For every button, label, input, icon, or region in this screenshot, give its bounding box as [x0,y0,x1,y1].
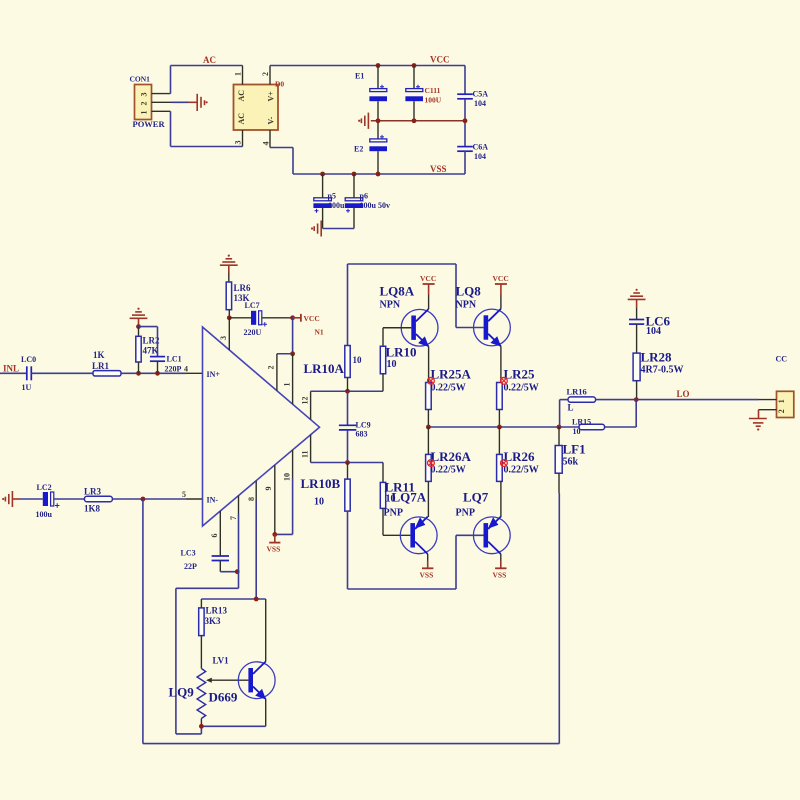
svg-text:6: 6 [210,534,219,538]
wire pin 12 net [311,390,383,392]
node pins 1-2 [290,351,295,356]
pin 12 stub [301,391,311,419]
wire LC2 to LR3 [54,498,85,500]
svg-text:1: 1 [234,72,243,76]
pin 9 stub [264,465,275,534]
wire D669 collector [265,599,267,662]
wire p6 to ground [323,228,354,230]
svg-text:4R7-0.5W: 4R7-0.5W [641,365,684,376]
wire pin 10 down [292,478,294,534]
svg-text:IN+: IN+ [207,370,221,379]
node IN+ LC1 [155,371,160,376]
svg-text:LQ8A: LQ8A [380,284,415,299]
resistor LR3 1K8 [84,487,112,514]
svg-text:5: 5 [182,490,186,499]
node output LR25A [426,425,431,430]
svg-text:LO: LO [677,389,690,399]
svg-text:100u: 100u [328,201,345,210]
svg-text:LR16: LR16 [567,387,587,397]
svg-text:LR25A: LR25A [431,367,472,382]
node pin11 LC9 column [345,460,350,465]
node LC7 VCC [290,315,295,320]
node pins 9-10 VSS [272,532,277,537]
transistor LQ7 [456,490,511,555]
node LC3 pin7 [235,569,240,574]
svg-text:1K8: 1K8 [84,504,101,514]
wire gnd to LC2 [20,498,43,500]
svg-text:1: 1 [283,383,292,387]
resistor LR26A 0.22/5W [426,427,472,517]
wire bias bottom rail [201,725,265,727]
connector CON1 [130,75,173,130]
svg-text:N1: N1 [315,328,324,337]
svg-text:22P: 22P [184,562,197,571]
svg-text:LC3: LC3 [181,549,196,558]
svg-text:0.22/5W: 0.22/5W [504,465,539,476]
node LR2 top [136,324,141,329]
svg-text:VCC: VCC [420,274,436,283]
pin 8 stub [247,481,256,501]
svg-text:LR26: LR26 [504,449,536,464]
wire pin 7 net down-left [176,514,239,734]
svg-text:CC: CC [776,355,788,364]
svg-text:D669: D669 [209,690,238,705]
capacitor LC2 100u [36,483,60,519]
ground above LC6 [628,289,646,308]
resistor LR11 10 [380,463,415,536]
wire VCC rail [270,55,465,66]
svg-text:4: 4 [184,365,188,374]
svg-text:3K3: 3K3 [205,616,222,626]
svg-text:VSS: VSS [420,571,434,580]
svg-text:E2: E2 [354,145,363,154]
svg-text:LC2: LC2 [37,483,52,492]
svg-text:LF1: LF1 [563,442,586,457]
capacitor p5 [313,174,345,229]
wire LQ8A emitter [428,346,430,382]
node IN+ LR2 [136,371,141,376]
svg-text:VCC: VCC [304,314,320,323]
svg-text:VSS: VSS [267,545,281,554]
potentiometer LV1 [197,656,248,727]
resistor LR28 4R7-0.5W [633,350,683,400]
resistor LR6 13K [226,273,251,318]
svg-text:LR25: LR25 [504,367,536,382]
wire LR3 to opamp IN- [112,490,202,499]
marker LR25 [501,377,508,384]
svg-text:D0: D0 [275,80,284,89]
transistor LQ7A [384,490,438,555]
pin 1 stub [283,354,293,404]
transistor LQ8 [456,284,511,347]
node feedback at IN- [141,497,146,502]
resistor LR25 0.22/5W [497,367,539,428]
capacitor C6A 104 [457,121,488,174]
svg-text:AC: AC [237,113,246,125]
pin 2 stub [267,354,293,391]
capacitor LC0 1U [21,355,36,392]
node VSS-p6 [352,172,357,177]
svg-text:10: 10 [314,497,324,508]
capacitor E2 [354,121,387,174]
node mid-C111 [412,118,417,123]
capacitor E1 [355,66,387,121]
svg-text:L: L [568,403,574,413]
wire output node [428,400,636,427]
svg-text:2: 2 [261,72,270,76]
node mid-C5A [463,118,468,123]
svg-text:C6A: C6A [473,143,489,152]
resistor LR25A 0.22/5W [426,367,472,428]
capacitor p6 [345,174,390,229]
svg-text:LC7: LC7 [245,301,260,310]
pin 11 stub [301,435,311,463]
svg-text:11: 11 [301,450,310,458]
svg-text:C5A: C5A [473,90,489,99]
svg-text:LC9: LC9 [356,421,371,430]
op-amp U1 [203,327,320,526]
resistor LR10 10 [380,328,416,392]
svg-text:PNP: PNP [456,508,475,519]
svg-text:9: 9 [264,487,273,491]
ground below p5 [311,221,321,237]
svg-text:220P: 220P [165,365,182,374]
svg-text:POWER: POWER [133,119,166,129]
wire LQ7 base net bottom [348,511,484,589]
power port VCC LQ8A [420,274,436,309]
svg-text:100u 50v: 100u 50v [360,201,390,210]
wire AC net [171,55,243,94]
svg-text:VCC: VCC [430,55,450,65]
svg-text:3: 3 [140,93,149,97]
svg-text:AC: AC [203,55,216,65]
svg-text:E1: E1 [355,72,364,81]
resistor LR26 0.22/5W [497,427,539,517]
pin 10 stub [283,450,293,481]
wire LR2 top to LC1 [139,327,158,357]
svg-text:1K: 1K [93,350,105,360]
resistor LR1 1K [92,350,121,376]
power port VCC LQ8 [493,274,509,309]
resistor LR10A 10 [304,346,363,392]
transistor LQ9 D669 [169,662,276,705]
svg-text:LC0: LC0 [21,355,36,364]
svg-text:LC1: LC1 [167,355,182,364]
node VCC-E1 [376,63,381,68]
svg-text:10: 10 [353,355,363,365]
ground above LR2 [130,308,148,327]
svg-text:V-: V- [267,116,276,124]
svg-text:7: 7 [229,516,238,520]
svg-text:p6: p6 [360,192,368,201]
power port VSS opamp [267,534,281,553]
svg-text:IN-: IN- [207,496,219,505]
ground at lower input [2,491,20,507]
svg-text:LR10A: LR10A [304,361,345,376]
node bias bottom [199,724,204,729]
capacitor LC1 220P [150,355,182,374]
svg-text:LR13: LR13 [206,606,228,616]
wire VSS rail [293,164,465,174]
node VSS-E2 [376,172,381,177]
wire INL input [0,372,27,374]
svg-text:2: 2 [140,102,149,106]
ground at CC pin 2 [749,410,767,431]
svg-text:2: 2 [267,366,276,370]
node output LF1 [557,425,562,430]
svg-text:LV1: LV1 [213,656,230,666]
wire CON1 pin1 to bridge [171,111,243,146]
node output LR25 [497,425,502,430]
resistor LF1 56k [555,427,585,493]
node VSS-p5 [320,172,325,177]
wire pin 8 net down [255,499,257,599]
wire LQ8 base net top [348,264,484,346]
capacitor LC6 104 [629,308,671,353]
svg-text:LQ7A: LQ7A [392,490,427,505]
svg-text:0.22/5W: 0.22/5W [431,383,466,394]
marker LR26A [428,460,435,467]
svg-text:47K: 47K [143,346,159,356]
transistor LQ8A [380,284,439,348]
svg-text:104: 104 [646,326,661,337]
svg-text:1: 1 [777,399,786,403]
power port VCC opamp [293,314,320,323]
svg-text:LR28: LR28 [641,350,673,365]
wire pin 11 net [311,462,383,464]
resistor LR16 L [560,387,637,428]
svg-text:V+: V+ [267,91,276,102]
wire LC0 to LR1 [31,372,93,374]
svg-text:NPN: NPN [380,300,401,311]
svg-text:LQ8: LQ8 [456,284,482,299]
wire VCC to pins 1,2 [292,318,294,354]
wire bias top rail [201,598,265,600]
svg-text:100U: 100U [425,96,442,105]
svg-text:VSS: VSS [430,164,447,174]
svg-text:10: 10 [573,427,581,436]
wire feedback loop [143,493,559,744]
power port VSS LQ7 [493,554,507,580]
svg-text:3: 3 [219,336,228,340]
svg-text:C111: C111 [425,86,441,95]
svg-text:0.22/5W: 0.22/5W [504,383,539,394]
wire mid rail [371,120,465,122]
wire bridge V- to VSS rail [270,148,293,175]
pin 3 stub [219,318,229,350]
svg-text:104: 104 [474,152,486,161]
node pin8 bias [254,597,259,602]
svg-text:220U: 220U [244,328,262,337]
pin 6 stub [210,511,220,556]
power port VSS LQ7A [420,554,434,580]
node VCC-C111 [412,63,417,68]
ground at mid rail [358,113,368,129]
net LO wire [636,389,758,400]
svg-text:VCC: VCC [493,274,509,283]
svg-text:PNP: PNP [384,508,403,519]
resistor LR13 3K3 [199,599,228,669]
capacitor LC7 220U [229,301,292,337]
svg-text:LQ7: LQ7 [463,490,489,505]
bridge rectifier D0 [234,66,285,148]
svg-text:LR3: LR3 [84,487,102,497]
svg-text:10: 10 [283,473,292,481]
wire LR1 to opamp IN+ [121,365,203,374]
wire LC3 to pin7 net [220,571,237,573]
svg-text:3: 3 [234,141,243,145]
ground above LR6 [220,255,238,274]
marker LR25A [428,377,435,384]
node pin12 LC9 column [345,389,350,394]
wire D669 emitter [265,699,267,726]
svg-text:100u: 100u [36,510,53,519]
wire pin 10 to VSS node [275,533,293,535]
marker LR26 [501,460,508,467]
ground at CON1 pin 2 [172,94,208,111]
svg-text:CON1: CON1 [130,75,151,84]
svg-text:LR10: LR10 [386,345,417,360]
svg-text:0.22/5W: 0.22/5W [431,465,466,476]
svg-text:INL: INL [3,364,19,374]
resistor LR15 10 [572,418,605,437]
resistor LR10B 10 [301,463,351,512]
svg-text:LR10B: LR10B [301,476,341,491]
svg-text:LR6: LR6 [234,283,252,293]
svg-text:12: 12 [301,397,310,405]
svg-text:683: 683 [356,430,368,439]
svg-text:LQ9: LQ9 [169,685,195,700]
node mid-E1 [376,118,381,123]
capacitor C5A 104 [457,66,488,121]
node pin3 LC7 [227,315,232,320]
svg-text:104: 104 [474,99,486,108]
svg-text:8: 8 [247,497,256,501]
wire LQ8 emitter [500,346,502,382]
svg-text:p5: p5 [328,192,336,201]
svg-text:2: 2 [777,409,786,413]
svg-text:1: 1 [140,111,149,115]
svg-text:VSS: VSS [493,571,507,580]
svg-text:LR15: LR15 [572,418,591,427]
svg-text:LR1: LR1 [92,361,110,371]
pin 7 stub [229,496,239,520]
svg-text:LR26A: LR26A [431,449,472,464]
capacitor LC3 22P [181,549,230,572]
svg-text:56k: 56k [563,457,579,468]
svg-text:10: 10 [387,359,397,370]
connector CC [759,355,794,418]
svg-text:1U: 1U [22,383,32,392]
svg-text:NPN: NPN [456,300,477,311]
resistor LR2 47K [136,327,160,374]
svg-text:AC: AC [237,90,246,102]
svg-text:4: 4 [262,142,271,146]
capacitor LC9 683 [339,391,371,462]
capacitor C111 100U [405,66,441,121]
node LO LR28 [634,397,639,402]
